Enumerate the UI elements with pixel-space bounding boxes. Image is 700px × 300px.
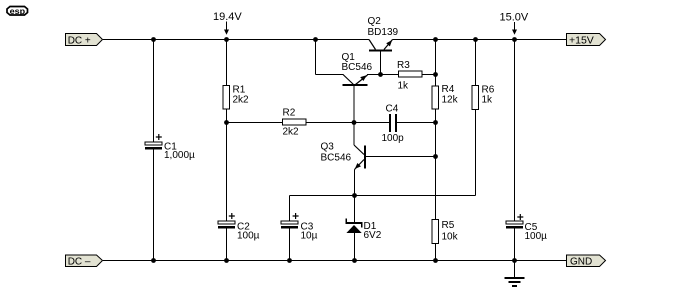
node bottom rail / ground bbox=[512, 258, 517, 263]
svg-text:esp: esp bbox=[10, 6, 26, 16]
wire top rail right (Q2 emitter to +15V) bbox=[393, 39, 567, 41]
node bottom rail / R5 bbox=[433, 258, 438, 263]
svg-text:10µ: 10µ bbox=[301, 231, 318, 242]
svg-text:1,000µ: 1,000µ bbox=[164, 150, 195, 161]
svg-text:DC +: DC + bbox=[68, 35, 91, 46]
node Q3 emitter / D1 / rail bbox=[352, 193, 357, 198]
node top rail / R6 bbox=[473, 37, 478, 42]
port DC- bbox=[66, 255, 103, 267]
wire R3 to R4 column bbox=[423, 74, 436, 76]
svg-text:BC546: BC546 bbox=[342, 62, 373, 73]
port DC+ bbox=[66, 34, 103, 47]
wire R4 bottom to Q3 base node bbox=[435, 110, 437, 157]
node bottom rail / C1 bbox=[151, 258, 156, 263]
wire C2 top lead bbox=[226, 123, 228, 222]
node bottom rail / C3 bbox=[287, 258, 292, 263]
wire top rail left (DC+ to Q2 collector) bbox=[103, 39, 369, 41]
node top rail / R1 bbox=[224, 37, 229, 42]
wire R1 bottom lead to node bbox=[226, 110, 228, 123]
wire R6 bottom lead bbox=[475, 110, 477, 196]
capacitor C4 bbox=[382, 104, 405, 145]
wire Q1 collector vertical drop bbox=[315, 40, 317, 75]
wire C4 to R4 column bbox=[397, 122, 436, 124]
wire bottom rail (DC- to GND) bbox=[103, 260, 566, 262]
svg-text:10k: 10k bbox=[442, 232, 459, 243]
wire Q3 emitter / D1 cathode vertical bbox=[354, 170, 356, 223]
resistor R4 bbox=[432, 84, 459, 109]
wire R4 top lead bbox=[435, 40, 437, 86]
svg-text:R3: R3 bbox=[397, 60, 410, 71]
svg-text:DC –: DC – bbox=[68, 256, 91, 267]
wire C1 column upper bbox=[153, 40, 155, 143]
node top rail / R4 bbox=[433, 37, 438, 42]
wire Q3 base to divider bbox=[366, 156, 436, 158]
wire ground stem bbox=[514, 261, 516, 278]
node Q1 emitter / Q2 base / R3 bbox=[378, 72, 383, 77]
wire Q1 base / Q3 collector vertical bbox=[353, 86, 355, 145]
wire Q1 collector horizontal bbox=[316, 74, 344, 76]
svg-text:Q3: Q3 bbox=[321, 142, 335, 153]
node bottom rail / C2 bbox=[224, 258, 229, 263]
capacitor C3 bbox=[281, 213, 318, 242]
capacitor C1 bbox=[145, 134, 195, 161]
svg-text:1k: 1k bbox=[482, 95, 494, 106]
wire C5 top lead bbox=[514, 40, 516, 222]
wire C2 bottom lead bbox=[226, 229, 228, 261]
wire C3 bottom lead bbox=[289, 229, 291, 261]
node R2 / Q1 base / C4 bbox=[352, 120, 357, 125]
wire D1 anode to bottom rail bbox=[354, 233, 356, 261]
svg-text:19.4V: 19.4V bbox=[213, 11, 242, 23]
wire emitter rail y=195 bbox=[290, 195, 476, 197]
ESP logo bbox=[7, 6, 28, 16]
svg-text:GND: GND bbox=[570, 256, 592, 267]
node bottom rail / D1 bbox=[352, 258, 357, 263]
svg-text:BC546: BC546 bbox=[321, 153, 352, 164]
wire R5 bottom lead bbox=[435, 244, 437, 261]
node Q3 base / R4 / R5 bbox=[433, 154, 438, 159]
svg-text:100p: 100p bbox=[382, 133, 405, 144]
node top rail / C1 bbox=[151, 37, 156, 42]
svg-text:2k2: 2k2 bbox=[283, 127, 300, 138]
zener diode D1 6V2 bbox=[346, 219, 382, 242]
wire Q2 base lead bbox=[380, 52, 382, 75]
svg-text:100µ: 100µ bbox=[237, 231, 260, 242]
resistor R3 bbox=[397, 60, 422, 92]
transistor Q1 BC546 bbox=[342, 52, 373, 86]
voltage label 15.0V with arrow bbox=[500, 12, 529, 35]
svg-text:6V2: 6V2 bbox=[364, 230, 382, 241]
svg-text:2k2: 2k2 bbox=[233, 95, 250, 106]
svg-text:15.0V: 15.0V bbox=[500, 12, 529, 24]
svg-text:1k: 1k bbox=[398, 81, 410, 92]
resistor R1 bbox=[223, 85, 249, 110]
node R1 / R2 / C2 bbox=[224, 120, 229, 125]
svg-text:+15V: +15V bbox=[569, 35, 594, 47]
capacitor C5 bbox=[506, 214, 547, 242]
wire C1 column lower bbox=[153, 150, 155, 261]
svg-text:R4: R4 bbox=[442, 84, 455, 95]
transistor Q2 BD139 bbox=[368, 16, 399, 52]
wire C3 top lead bbox=[289, 196, 291, 222]
node C4 / R4 column bbox=[433, 120, 438, 125]
svg-text:100µ: 100µ bbox=[525, 231, 548, 242]
port +15V bbox=[567, 34, 606, 47]
svg-text:R5: R5 bbox=[442, 220, 455, 231]
svg-text:Q2: Q2 bbox=[368, 16, 382, 27]
node top rail / C5 bbox=[512, 37, 517, 42]
resistor R6 bbox=[472, 85, 495, 110]
wire Q1 emitter to R3 bbox=[367, 74, 398, 76]
wire R2 to C4 bbox=[307, 122, 390, 124]
node top rail / Q1 collector bbox=[313, 37, 318, 42]
svg-text:12k: 12k bbox=[442, 95, 459, 106]
wire R1 top lead bbox=[226, 40, 228, 86]
wire node A to R2 bbox=[227, 122, 283, 124]
svg-text:BD139: BD139 bbox=[368, 27, 399, 38]
wire Q3 base node to R5 bbox=[435, 157, 437, 220]
node R3 / R4 column bbox=[433, 72, 438, 77]
resistor R2 bbox=[283, 108, 307, 138]
wire R6 top lead bbox=[475, 40, 477, 86]
svg-text:R2: R2 bbox=[283, 108, 296, 119]
port GND bbox=[567, 255, 606, 267]
capacitor C2 bbox=[218, 213, 260, 242]
resistor R5 bbox=[432, 220, 459, 244]
transistor Q3 BC546 bbox=[321, 142, 367, 170]
svg-text:C4: C4 bbox=[386, 104, 399, 115]
voltage label 19.4V with arrow bbox=[213, 11, 242, 35]
wire C5 bottom lead bbox=[514, 229, 516, 261]
ground symbol bbox=[505, 277, 525, 287]
